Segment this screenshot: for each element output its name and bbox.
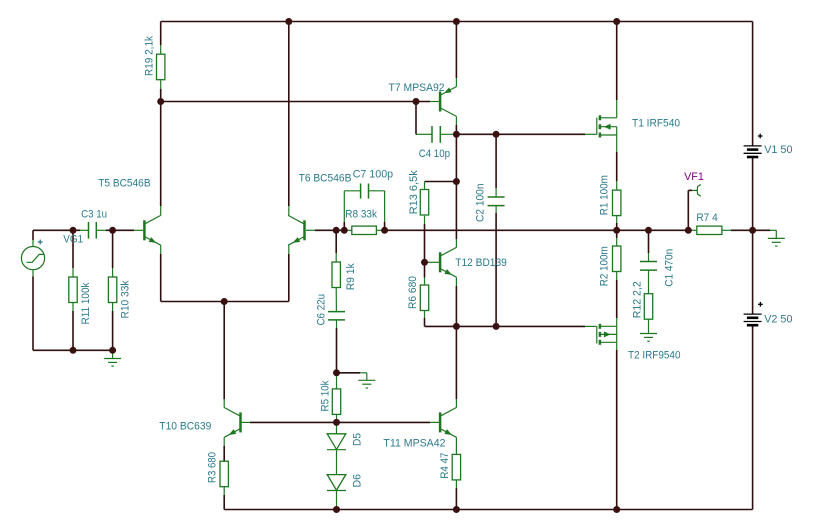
svg-text:R2 100m: R2 100m bbox=[599, 246, 611, 286]
svg-text:T5 BC546B: T5 BC546B bbox=[98, 177, 150, 189]
svg-text:R3 680: R3 680 bbox=[207, 452, 219, 483]
svg-text:C3 1u: C3 1u bbox=[81, 208, 107, 220]
svg-text:C2 100n: C2 100n bbox=[475, 184, 487, 223]
svg-text:T2 IRF9540: T2 IRF9540 bbox=[628, 349, 681, 361]
svg-text:R7 4: R7 4 bbox=[696, 212, 717, 224]
svg-text:T12 BD139: T12 BD139 bbox=[455, 257, 507, 269]
svg-text:R8 33k: R8 33k bbox=[345, 208, 377, 220]
svg-text:T1 IRF540: T1 IRF540 bbox=[632, 117, 680, 129]
svg-text:R1 100m: R1 100m bbox=[599, 175, 611, 215]
svg-text:V2 50: V2 50 bbox=[764, 313, 792, 325]
svg-text:D6: D6 bbox=[352, 474, 364, 488]
svg-text:T6 BC546B: T6 BC546B bbox=[299, 172, 352, 184]
svg-text:C6 22u: C6 22u bbox=[316, 294, 328, 326]
svg-text:C1 470n: C1 470n bbox=[664, 249, 676, 287]
svg-text:T10 BC639: T10 BC639 bbox=[159, 421, 211, 433]
svg-text:T7 MPSA92: T7 MPSA92 bbox=[389, 82, 445, 94]
svg-text:C7 100p: C7 100p bbox=[353, 168, 393, 180]
svg-text:R6 680: R6 680 bbox=[407, 276, 419, 309]
svg-text:D5: D5 bbox=[352, 433, 364, 446]
svg-text:VF1: VF1 bbox=[684, 171, 704, 183]
svg-text:R12 2,2: R12 2,2 bbox=[631, 281, 643, 318]
svg-text:R19 2,1k: R19 2,1k bbox=[143, 36, 155, 76]
svg-text:R11 100k: R11 100k bbox=[80, 282, 92, 324]
svg-text:R13 6,5k: R13 6,5k bbox=[408, 170, 420, 214]
svg-text:V1 50: V1 50 bbox=[764, 144, 792, 156]
svg-text:C4 10p: C4 10p bbox=[419, 148, 450, 160]
svg-text:R4 47: R4 47 bbox=[439, 453, 451, 479]
svg-text:R10 33k: R10 33k bbox=[120, 280, 132, 318]
svg-text:R5 10k: R5 10k bbox=[320, 380, 332, 411]
svg-text:R9 1k: R9 1k bbox=[345, 263, 357, 290]
svg-text:T11 MPSA42: T11 MPSA42 bbox=[383, 438, 445, 450]
svg-text:VG1: VG1 bbox=[63, 233, 83, 245]
